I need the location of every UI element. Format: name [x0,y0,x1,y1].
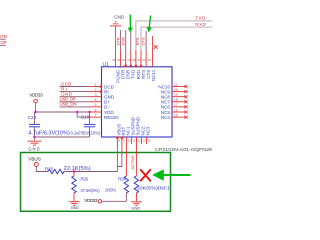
resistor R23 (not fitted) [134,176,170,201]
wire REGIN jog [77,112,88,117]
pin 3 GND [89,93,115,100]
wire VBUS rail to pin [64,149,122,173]
svg-text:2K(5%): 2K(5%) [105,188,116,193]
wire TXD (under green arrow) [130,32,132,50]
node VBUS power port [28,156,48,171]
svg-text:3: 3 [95,93,97,97]
ground GND (capacitors) [28,141,42,152]
svg-text:CP2102N-A01-GQFN28: CP2102N-A01-GQFN28 [155,147,213,152]
pin 1 DCD [89,83,115,90]
top pin names [115,69,156,83]
ground GND (top) [110,14,124,50]
svg-text:2: 2 [95,88,97,92]
svg-text:C19: C19 [81,115,90,120]
bottom pins 8-14 [117,137,146,149]
svg-text:GND: GND [114,14,124,19]
svg-text:R26: R26 [81,176,89,181]
green annotation box [21,153,171,212]
svg-text:23: 23 [143,58,147,62]
svg-text:NC4: NC4 [161,115,171,120]
net label GND [60,92,89,97]
svg-text:4.7uF/6.3V(10%): 4.7uF/6.3V(10%) [28,130,70,136]
svg-text:8: 8 [118,139,120,143]
svg-text:24: 24 [138,58,142,62]
pin 4 D+ [89,98,111,105]
svg-text:25: 25 [132,58,136,62]
wire DSR [121,30,126,50]
svg-text:1: 1 [95,83,97,87]
right pins 15-21 NC [158,83,187,120]
svg-text:13: 13 [142,139,146,143]
ground GND (R26) [69,202,80,210]
net label DCD [60,81,89,86]
pin 6 VDD [89,108,115,115]
svg-text:0.1uF/50V(10%): 0.1uF/50V(10%) [71,130,101,135]
svg-text:NC3: NC3 [146,126,151,135]
svg-text:47.5K(5%): 47.5K(5%) [81,188,101,193]
svg-text:ACTIVE: ACTIVE [130,155,135,170]
pin 7 REGIN [89,113,119,120]
bottom pin numbers [118,139,150,143]
resistor R24 [105,176,129,201]
annotation red X [140,169,151,181]
svg-text:12: 12 [137,139,141,143]
wire SUSPEND (red) with label [130,149,137,176]
svg-text:20: 20 [174,88,178,92]
svg-text:19: 19 [174,93,178,97]
IC U1 body (CP2102N USB-UART bridge) [102,62,173,137]
annotation green arrow left [152,169,190,180]
wire net TXD to right edge [136,15,213,50]
svg-text:RTS: RTS [135,37,140,45]
resistor R26 [72,172,100,202]
svg-text:26: 26 [127,58,131,62]
svg-text:15: 15 [174,113,178,117]
resistor R25 [45,166,91,174]
svg-text:USB_DN: USB_DN [60,102,77,107]
svg-text:CTS: CTS [141,37,146,45]
svg-text:14: 14 [147,139,151,143]
svg-text:REGIN: REGIN [104,115,119,120]
svg-text:5: 5 [95,103,97,107]
capacitor C28 [28,112,71,137]
svg-text:29: 29 [112,58,116,62]
svg-text:21: 21 [174,83,178,87]
svg-text:28: 28 [117,58,121,62]
svg-text:DTR_ON: DTR_ON [0,34,7,39]
svg-text:U1: U1 [103,62,110,68]
top pins 22-29 [116,50,153,67]
net label USB_DN [60,102,89,107]
svg-text:VDD33: VDD33 [84,198,98,203]
svg-text:C28: C28 [28,115,37,120]
svg-text:22: 22 [148,58,152,62]
top pin numbers [112,58,151,62]
svg-text:GND: GND [131,205,140,210]
net label clipped (left edge) line 2 [0,40,7,46]
svg-text:VDD33: VDD33 [29,93,43,98]
net label clipped (left edge) line 1 [0,34,7,39]
pin 2 RI [89,88,109,95]
svg-text:NC11: NC11 [151,69,156,81]
svg-text:16: 16 [174,108,178,112]
node VDD33 (top power port) [29,93,43,113]
bottom pin names [117,117,151,135]
annotation green arrow 2 [146,15,153,33]
top pin junction dots [125,65,143,67]
wire capacitor ground bus [33,136,89,141]
svg-text:9: 9 [123,139,125,143]
pin 5 D- [89,103,110,110]
svg-text:GND: GND [28,147,40,152]
svg-text:17: 17 [174,103,178,107]
annotation green arrow 1 [128,15,133,33]
wire NC11 no-connect [153,36,158,57]
svg-text:27: 27 [122,58,126,62]
ground GND (R23) [131,202,142,211]
net label RI [60,86,89,91]
svg-text:18: 18 [174,98,178,102]
wire DTR [116,30,121,50]
svg-text:11: 11 [132,139,135,143]
svg-text:TXD: TXD [195,15,206,20]
svg-text:DSR: DSR [121,37,126,46]
svg-text:10K(5%)(NC): 10K(5%)(NC) [137,185,171,190]
svg-text:10: 10 [127,139,131,143]
svg-text:DSR_OP: DSR_OP [0,40,7,45]
svg-text:6: 6 [95,108,97,112]
bottom pin junction dots [116,136,123,138]
net label USB_DP [60,97,89,102]
svg-text:4: 4 [95,98,97,102]
wire net RXD to right edge [141,22,213,51]
wire RST pull-up (red) [125,149,127,176]
wire CTS [141,31,147,50]
capacitor C19 [71,112,101,137]
svg-text:VBUS: VBUS [28,156,41,161]
wire VDD rail [34,111,90,113]
svg-text:7: 7 [95,113,97,117]
node VDD33 (bottom power port) [84,198,126,203]
svg-text:RXD: RXD [195,22,206,27]
svg-text:GND: GND [71,205,79,210]
